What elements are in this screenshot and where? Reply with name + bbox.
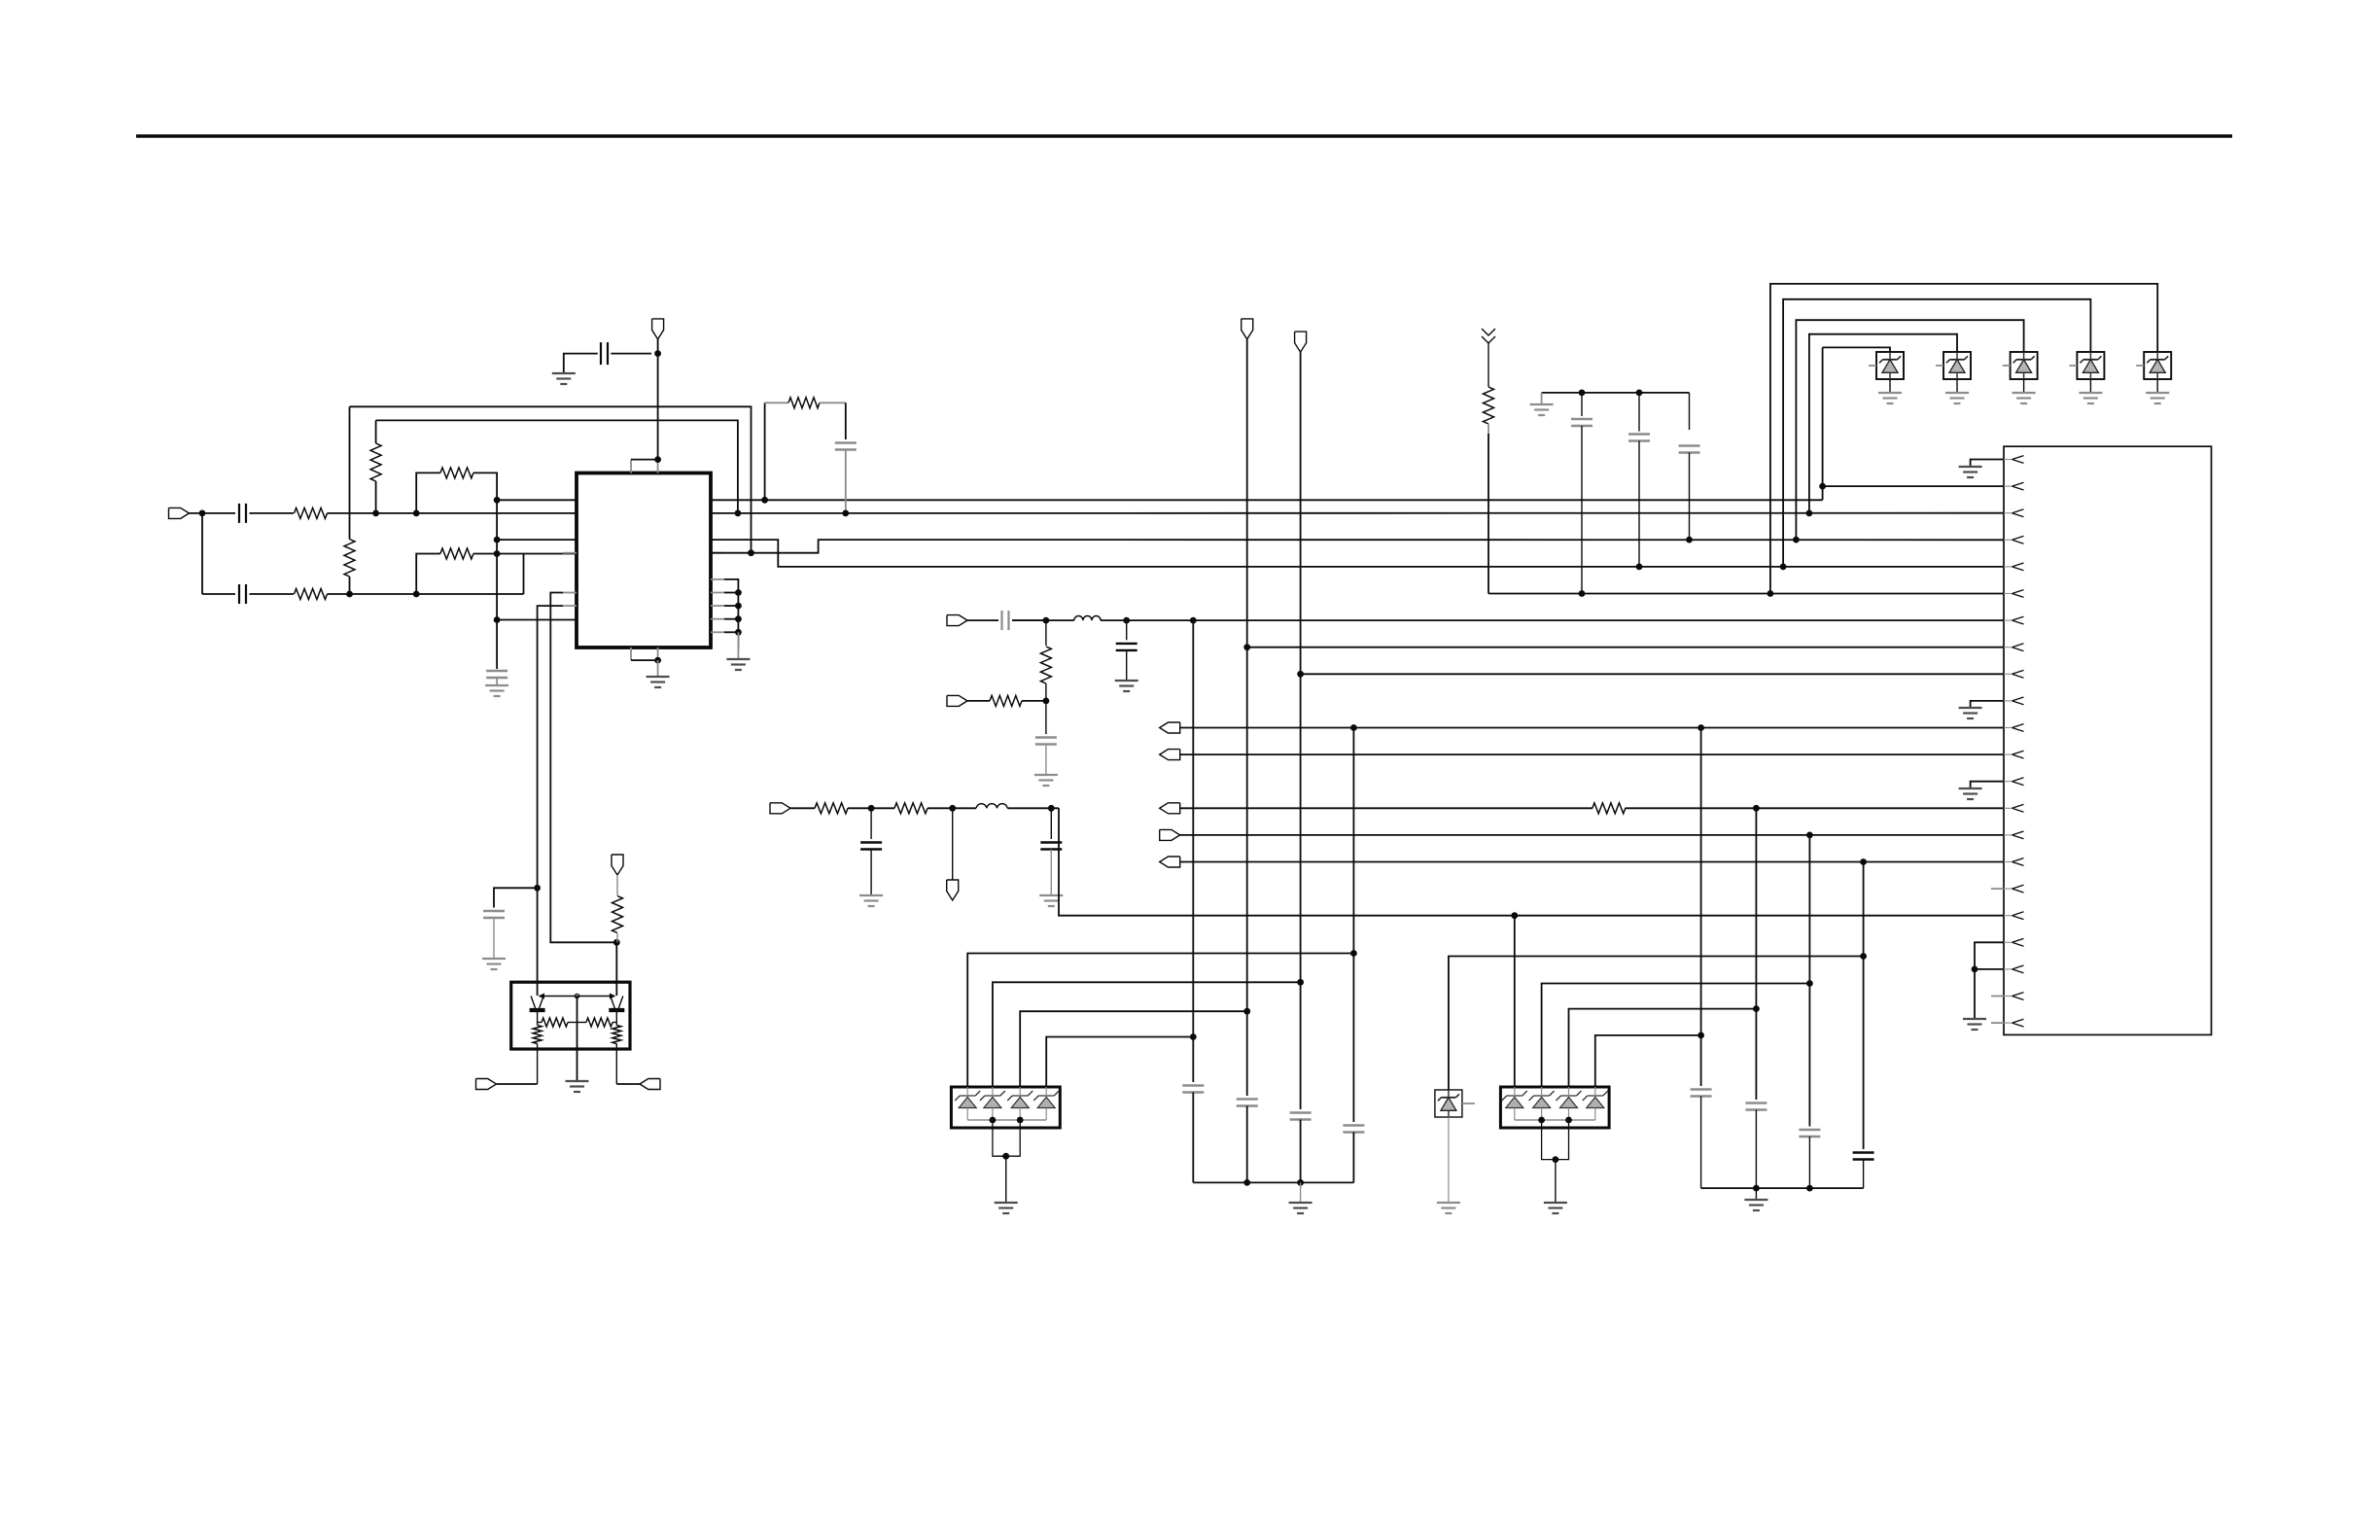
capacitor C20 [1343,1126,1364,1133]
wire rf2 c [1012,619,1074,621]
wire R5 to node [473,553,497,555]
junction pin2 branch [1819,483,1826,490]
resistor R1 [295,507,328,518]
TVS diode D5 [2144,352,2171,379]
resistor R11 [1040,647,1051,683]
ground diode D3 [2012,393,2036,403]
array1 tie [993,1120,1020,1156]
TVS diode D2 [1943,352,1971,379]
diode D1 ground wire [1889,379,1891,393]
wire row6 [1488,593,2004,595]
resistor R4 vertical [370,420,381,513]
wire C1 to R1 [250,512,295,514]
resistor R16 vertical [533,1023,542,1085]
emitter rail [539,994,616,999]
wire row3corner up [523,554,525,595]
junction row5/bus2 vert [1780,564,1787,571]
IC right pin stub y595 [711,578,724,580]
junction group y650 [735,629,742,636]
junction VDD node [654,350,661,357]
junction row7 start [494,616,501,623]
junction rail1 a [1243,1179,1250,1186]
resistor R17 vertical [612,1023,621,1085]
wire col1749 [1700,728,1702,1087]
wire feedback row 432 [376,420,738,513]
connector pin 16 arrow [2004,858,2024,866]
wire row4 left [497,553,577,555]
port T6 [476,1079,497,1090]
wire row1 from IC [711,499,1823,501]
junction Q pair right top [613,939,620,946]
wire rail1 gnd stub [1300,1182,1302,1203]
diode D6 right stub [1462,1102,1475,1104]
ground pin13 [1959,788,1982,799]
resistor R7 vertical chain [1484,343,1494,594]
diode D6 top wire [1449,957,1864,1091]
capacitor C22 [1745,1103,1767,1110]
IC left pin stub y568 [563,552,577,554]
capacitor C9 plates [1628,435,1650,441]
array1 pin1 wire [967,954,1353,1088]
array1 inner rail [966,1108,968,1121]
wire row3 to IC pin3 [497,539,577,541]
wire C11 up [870,808,872,839]
ground C11 [859,895,883,906]
wire R6 left lead [765,402,788,403]
wire R1 to IC pin 2 [328,512,577,514]
power PWR3 pentagon [947,880,959,900]
resistor R14 (Q1A base) [538,1018,577,1027]
resistor R18 [440,468,473,478]
junction row2/bus4 vert [1806,510,1813,517]
vertical net at x511 [496,500,498,669]
diode D5 left stub [2136,365,2144,367]
wire P1 to node A [190,512,236,514]
ground C15 [1034,775,1058,786]
connector pin 17 arrow [2004,885,2024,892]
connector pin 19 arrow [2004,938,2024,946]
wire rf1 c [927,807,976,809]
wire C3 to ground [496,678,498,685]
wire T7 [616,1083,640,1085]
TVS diode D3 [2011,352,2038,379]
junction col1392/array1 pin1 [1350,950,1357,957]
ground C12 [1039,895,1063,906]
array1 pin4 wire [1046,1037,1193,1088]
ground pin19-20 [1963,1019,1986,1030]
bus2 wire [1783,299,2090,567]
capacitor C17 [1182,1086,1204,1093]
port RF2 in [947,615,967,626]
wire col1916 low [1863,1160,1865,1189]
wire C15 down [1045,745,1047,776]
junction row16/vcol3 [1860,858,1867,865]
resistor R3 vertical [344,406,355,594]
diode D3 left stub [2003,365,2011,367]
junction Rpu/row4 right [748,549,754,556]
diode DA1-2 [984,1098,1001,1108]
capacitor C12 [1040,843,1062,850]
connector pin 9 arrow [2004,670,2024,678]
wire pin13 gnd [1971,782,2004,788]
junction col1916/wireB [1860,953,1867,960]
pin17 stub [1991,888,2004,890]
junction rf2 C14 [1123,617,1130,624]
wire R11 top [1045,620,1047,646]
wire rf1 b [848,807,894,809]
bus5 wire [1823,347,1890,353]
ground IC right group [726,659,750,670]
capacitor C8 [1581,393,1583,416]
junction col1749/array2 pin4 [1697,1032,1704,1039]
wire PWR1 column [1246,339,1248,1096]
wire IC bottom to ground [657,660,659,677]
resistor R13 [612,896,623,933]
wire VDD cap branch [611,353,651,355]
rail2 [1701,1187,1864,1189]
diode D3 ground wire [2023,379,2025,393]
diode array DA2 box [1500,1087,1609,1128]
op-amp U1 main IC body [577,473,711,648]
wire col1283 low [1246,1106,1248,1183]
connector pin 22 arrow [2004,1019,2024,1027]
wire pin1 gnd [1971,460,2004,468]
ground diode D5 [2146,393,2169,403]
capacitor C5 snubber [835,443,857,450]
array1 pin2 wire [993,982,1301,1087]
junction row2 right/fb [735,510,742,517]
junction row4/bus3 vert [1793,537,1800,543]
diode DA2-3 [1560,1098,1578,1108]
connector pin 18 arrow [2004,912,2024,920]
input port P1 [169,507,190,518]
wire C2 to R2 [250,593,295,595]
junction row5/C6 [1636,564,1643,571]
wire row12 [1180,753,2004,755]
junction array2 rail a [1538,1117,1545,1124]
array2 pin4 wire [1595,1035,1701,1087]
junction rf2 col [1190,617,1197,624]
wire row9 to pin9 [1301,673,2004,675]
junction row11/col [1697,724,1704,731]
capacitor C9 [1639,393,1690,432]
IC right pin stub y623 [711,605,724,607]
connector pin 13 arrow [2004,778,2024,786]
pin22 stub [1991,1022,2004,1024]
wire PWR2 column [1300,352,1302,1109]
wire row14 a [1180,807,1592,809]
wire node A down to second row [201,513,203,594]
junction array1 tie [1002,1153,1009,1160]
junction row6/bus1 vert [1767,590,1774,597]
IC right pin stub y650 [711,631,724,633]
wire emitter to ground [577,997,578,1082]
connector pin 4 arrow [2004,536,2024,543]
wire col1338 low [1300,1120,1302,1183]
junction rf1 C12 [1048,805,1055,812]
wire row14 b [1626,807,2004,809]
connector pin 12 arrow [2004,751,2024,758]
wire row16 [1180,861,2004,863]
junction array2 tie [1553,1156,1559,1163]
resistor R12 [990,695,1022,706]
power VDD pentagon [652,319,664,339]
junction group y609 [735,589,742,596]
connector pin 11 arrow [2004,724,2024,732]
junction col1227/array1 pin4 [1190,1033,1197,1040]
rail1 [1193,1181,1353,1183]
diode D2 ground wire [1956,379,1958,393]
wire Q right collector [615,942,617,996]
wire rf3 b [1022,700,1046,702]
junction group y636 [735,615,742,622]
capacitor C19 [1290,1113,1312,1120]
resistor R9 [815,803,848,814]
junction rf2 R11 [1043,617,1050,624]
wire pin19 gnd down [1974,969,1976,1019]
wire col1749 low [1700,1097,1702,1189]
IC bottom pins [631,647,658,660]
wire rf2 a [967,619,998,621]
wire row3 dot up [416,554,440,595]
port T4 [1160,829,1180,840]
wire C12 up [1050,808,1052,839]
wire rf1 a [790,807,815,809]
IC right pin stub y609 [711,592,724,594]
wire row8 to pin8 [1247,647,2004,648]
junction row3/Rtop [346,591,353,598]
wire row3 jog [711,540,2004,567]
capacitor C8 plates [1571,419,1592,426]
resistor R5 [440,548,473,559]
diode array DA1 box [951,1087,1060,1128]
wire col1916 [1863,862,1865,1150]
ground diode D1 [1878,393,1902,403]
wire R13 bottom [616,933,618,942]
port T3 [1160,803,1180,814]
wire top feedback row [350,406,752,552]
node A junction [199,510,206,517]
wire VDD down [657,354,659,460]
wire pwr3 stem [952,808,954,880]
wire C8 down [1581,426,1583,594]
ground C14 [1115,681,1138,691]
port RF1 in [770,803,790,814]
diode D4 left stub [2069,365,2077,367]
port RF3 in [947,695,967,706]
capacitor C2 [239,584,246,604]
junction rail2 a [1753,1185,1760,1192]
transistor pair Q1 box [511,982,630,1049]
wire rail2 gnd stub [1755,1188,1757,1200]
wire RC left vertical [764,402,766,500]
wire row2 from IC [711,512,2004,514]
junction row15/vcol2 [1806,832,1813,839]
junction C5/row2 [842,510,849,517]
junction PWR1/row8 [1243,644,1250,650]
wire col1806 [1755,808,1757,1100]
ground D6 [1437,1203,1460,1213]
TVS diode D4 [2077,352,2104,379]
junction col1861/array2 pin2 [1806,980,1813,987]
ground IC bottom [647,677,670,687]
wire pin10 gnd [1971,701,2004,708]
wire C10 down [1689,453,1691,541]
junction R18/row1 [494,497,501,504]
junction rail/C9 [1636,390,1643,397]
junction IC bottom [654,657,661,664]
connector pin 1 arrow [2004,456,2024,464]
wire cap branch [494,888,538,907]
array2 gnd wire [1555,1160,1557,1203]
capacitor C18 [1237,1100,1258,1106]
capacitor C16 [483,911,505,918]
diode D1 left stub [1869,365,1876,367]
wire C15 up [1045,701,1047,734]
junction cap branch [534,885,541,892]
wire rf2 b [1012,619,1046,621]
ground diode D2 [1945,393,1969,403]
ground array1 [995,1203,1018,1213]
connector pin 10 arrow [2004,697,2024,705]
diode D4 ground wire [2089,379,2091,393]
wire pin2 [1823,485,2004,487]
power PWR2 pentagon [1295,332,1307,352]
wire col1227 [1192,620,1194,1082]
port T7 [640,1079,660,1090]
array1 gnd wire [1005,1156,1007,1203]
ground rail2 [1744,1200,1767,1210]
wire row4 jog [711,540,2004,553]
wire rf1 out [1059,808,2004,915]
junction row2/Rpu top [413,510,420,517]
junction rf3 [1043,698,1050,705]
wire RC right vertical [845,402,847,439]
junction row2/Rfb1 [372,510,379,517]
diode D2 left stub [1936,365,1943,367]
connector pin 8 arrow [2004,644,2024,651]
diode DA2-2 [1533,1098,1551,1108]
junction rail1 b [1297,1179,1304,1186]
wire C16 down [493,918,495,959]
wire rf2 d [1101,619,2004,621]
wire row1 jog up [1822,347,1824,500]
wire col1806 low [1755,1110,1757,1189]
ground rail1 [1289,1203,1312,1213]
connector pin 5 arrow [2004,563,2024,571]
wire row7 to IC pin7 [497,619,577,621]
junction PWR2/array1 pin2 [1297,979,1304,986]
power PWR1 pentagon [1242,319,1253,339]
ground VDD cap [552,373,576,384]
diode DA2-1 [1506,1098,1523,1108]
port T2 [1160,750,1180,760]
ground C16 [482,959,506,969]
wire row3 left [202,593,235,595]
ground Q1 emitters [566,1081,589,1092]
diode D5 ground wire [2156,379,2158,393]
pin21 stub [1991,996,2004,997]
diode DA2-4 [1587,1098,1604,1108]
bus3 wire [1796,320,2023,540]
ground cap rail [1530,404,1554,415]
junction pin19-20 [1972,966,1978,973]
capacitor C21 [1691,1090,1712,1097]
wire cap rail [1542,392,1690,394]
resistor R6 snubber [788,398,820,408]
diode D6 ground wire [1448,1117,1450,1203]
IC right pin stub y568 [711,552,724,554]
wire R11 bottom [1045,683,1047,701]
ground pin1 [1959,467,1982,477]
port T1 [1160,722,1180,733]
connector pin 14 arrow [2004,804,2024,812]
wire C12 down [1050,850,1052,896]
diode DA1-3 [1011,1098,1029,1108]
wire pin6 path [538,606,563,996]
capacitor C1 [239,504,246,523]
connector J1 body [2004,446,2212,1034]
capacitor C15 [1035,738,1057,745]
wire col1227 low [1192,1093,1194,1183]
diode DA1-4 [1037,1098,1055,1108]
wire C5 down [845,450,847,513]
capacitor C14 [1116,644,1137,650]
resistor R2 [295,589,328,600]
transistor Q1B [609,997,624,1023]
wire col1861 [1808,835,1810,1127]
junction rail2 b [1806,1185,1813,1192]
wire C4 to gnd corner [564,354,598,373]
junction PWR1/array1 pin3 [1243,1008,1250,1015]
capacitor C4 vdd [601,342,608,365]
capacitor C11 [860,843,882,850]
wire R2 to corner [328,593,524,595]
junction col1806/array2 pin3 [1753,1005,1760,1012]
capacitor C13 [1002,611,1009,630]
diode DA1-1 [959,1098,976,1108]
wire row1 left [497,499,577,501]
title block rule [136,134,2232,137]
capacitor C10 plates [1679,446,1700,453]
diode D6 [1435,1090,1462,1117]
IC right lower group to ground [724,579,738,649]
wire col1392 low [1352,1133,1354,1183]
junction IC top [654,456,661,463]
ground pin10 [1959,708,1982,718]
connector pin 20 arrow [2004,965,2024,973]
connector pin 6 arrow [2004,590,2024,598]
wire col1392 [1352,728,1354,1123]
capacitor C24 [1853,1153,1874,1160]
junction row14/vcol1 [1753,805,1760,812]
junction PWR2/row9 [1297,671,1304,678]
junction R5/vertical [494,550,501,557]
capacitor C23 [1799,1130,1820,1137]
wire pin19-20 [1975,942,2004,969]
resistor R8 [1592,803,1626,814]
array1 pin3 wire [1020,1011,1247,1087]
junction row4/C7 [1686,537,1693,543]
array2 tie [1542,1120,1569,1160]
wire row2 dot up [416,472,440,513]
wire rail ground stub [1541,393,1543,404]
junction row3 start [494,537,501,543]
wire row11 [1180,727,2004,729]
junction rf1 C11 [868,805,875,812]
connector pin 21 arrow [2004,993,2024,1000]
connector pin 7 arrow [2004,616,2024,624]
